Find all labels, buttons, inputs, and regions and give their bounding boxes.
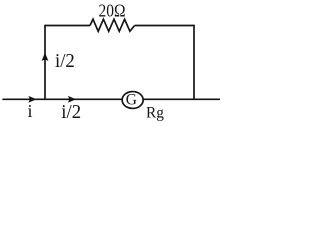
arrow i/2 on left branch (up) bbox=[42, 53, 49, 62]
svg-text:i/2: i/2 bbox=[61, 101, 81, 123]
arrow i on bottom wire bbox=[28, 96, 36, 103]
wire right branch vertical bbox=[193, 25, 195, 100]
arrow i/2 on bottom wire bbox=[68, 96, 76, 103]
wire bottom bbox=[2, 98, 220, 100]
svg-text:G: G bbox=[126, 92, 137, 109]
wire left branch vertical bbox=[44, 25, 46, 100]
wire top-right segment bbox=[135, 25, 194, 27]
svg-text:20Ω: 20Ω bbox=[99, 0, 126, 20]
galvanometer G body bbox=[122, 92, 143, 109]
wire top-left segment bbox=[45, 25, 90, 27]
svg-text:i/2: i/2 bbox=[55, 50, 75, 72]
resistor R 20ohm zigzag bbox=[90, 19, 135, 31]
svg-text:Rg: Rg bbox=[146, 104, 164, 121]
svg-text:i: i bbox=[28, 101, 33, 121]
